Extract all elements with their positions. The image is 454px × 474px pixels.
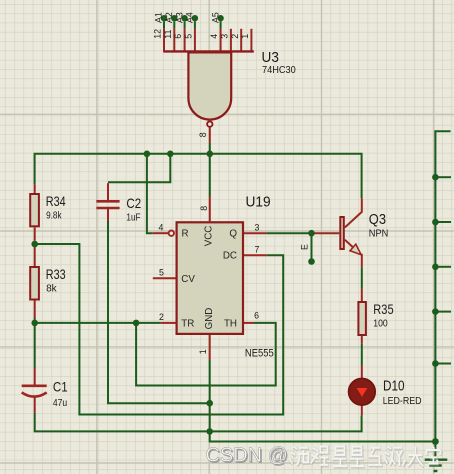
svg-text:5: 5 xyxy=(159,267,164,277)
svg-text:NE555: NE555 xyxy=(245,348,274,360)
svg-text:1: 1 xyxy=(240,34,250,39)
svg-text:3: 3 xyxy=(255,222,260,232)
svg-text:8: 8 xyxy=(199,206,209,211)
svg-text:A3: A3 xyxy=(174,12,184,23)
svg-text:12: 12 xyxy=(153,29,163,39)
svg-text:R33: R33 xyxy=(46,266,66,282)
svg-text:74HC30: 74HC30 xyxy=(262,65,296,76)
svg-text:Q3: Q3 xyxy=(369,212,386,228)
svg-text:A1: A1 xyxy=(154,12,164,23)
svg-text:A5: A5 xyxy=(210,12,220,23)
svg-text:6: 6 xyxy=(254,310,259,320)
svg-text:A2: A2 xyxy=(164,12,174,23)
svg-text:R: R xyxy=(182,228,189,239)
svg-text:NPN: NPN xyxy=(369,229,389,240)
svg-text:C1: C1 xyxy=(53,379,68,395)
svg-text:R35: R35 xyxy=(373,301,393,317)
svg-text:1uF: 1uF xyxy=(126,212,140,223)
svg-text:8: 8 xyxy=(198,132,208,137)
svg-text:2: 2 xyxy=(230,34,240,39)
svg-text:VCC: VCC xyxy=(204,226,215,247)
svg-text:TH: TH xyxy=(224,318,237,329)
svg-text:7: 7 xyxy=(255,244,260,254)
svg-text:C2: C2 xyxy=(126,195,141,211)
svg-text:47u: 47u xyxy=(53,398,67,409)
svg-text:8k: 8k xyxy=(46,284,57,295)
svg-text:6: 6 xyxy=(173,34,183,39)
svg-text:100: 100 xyxy=(373,319,388,330)
svg-text:A4: A4 xyxy=(185,12,195,23)
svg-text:4: 4 xyxy=(159,222,164,232)
svg-text:U19: U19 xyxy=(246,194,271,211)
svg-text:9.8k: 9.8k xyxy=(46,211,62,222)
svg-text:11: 11 xyxy=(163,30,173,39)
svg-text:4: 4 xyxy=(209,34,219,39)
svg-text:R34: R34 xyxy=(46,193,66,209)
svg-text:Q: Q xyxy=(229,229,237,240)
svg-text:U3: U3 xyxy=(262,49,279,66)
svg-text:CSDN @: CSDN @ xyxy=(206,445,288,467)
svg-text:DC: DC xyxy=(223,251,237,262)
svg-text:E: E xyxy=(300,244,310,250)
svg-text:1: 1 xyxy=(198,349,208,354)
svg-text:TR: TR xyxy=(181,318,194,329)
svg-text:3: 3 xyxy=(220,34,230,39)
svg-text:CV: CV xyxy=(181,274,195,285)
svg-text:GND: GND xyxy=(204,308,215,330)
svg-text:D10: D10 xyxy=(383,378,405,394)
svg-text:5: 5 xyxy=(184,34,194,39)
svg-text:2: 2 xyxy=(159,312,164,322)
svg-text:LED-RED: LED-RED xyxy=(383,396,422,407)
